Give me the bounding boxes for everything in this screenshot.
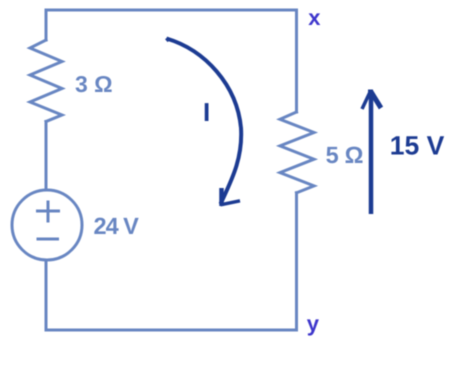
svg-text:5 Ω: 5 Ω	[326, 142, 364, 168]
svg-text:3 Ω: 3 Ω	[75, 71, 113, 97]
svg-text:15 V: 15 V	[390, 131, 445, 161]
svg-text:I: I	[203, 97, 210, 127]
svg-text:24 V: 24 V	[94, 213, 140, 239]
svg-text:y: y	[307, 311, 320, 336]
svg-text:x: x	[308, 5, 321, 30]
